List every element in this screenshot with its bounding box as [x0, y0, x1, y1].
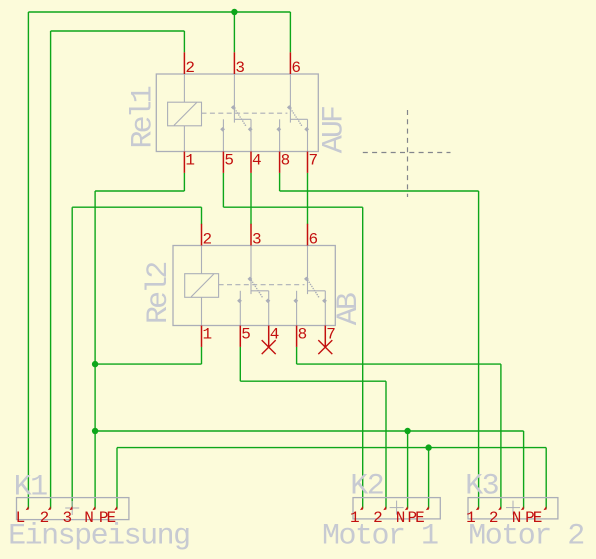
svg-text:1: 1	[203, 326, 213, 344]
wire Rel1 pin 5 horizontal	[223, 206, 362, 208]
connector K1 box	[17, 498, 129, 520]
no-connect X on Rel2 pin 7	[318, 340, 332, 354]
junction N-net at long horizontal	[92, 428, 98, 434]
no-connect X on Rel2 pin 4	[262, 340, 276, 354]
svg-text:K1: K1	[14, 470, 48, 504]
svg-text:7: 7	[309, 152, 319, 170]
Rel1 coil	[168, 102, 202, 126]
K3 origin cross	[506, 507, 520, 509]
junction N-net at Rel2 pin 1 branch	[92, 361, 98, 367]
svg-text:8: 8	[281, 152, 291, 170]
wire Rel2 pin 8 down	[296, 347, 298, 364]
relay Rel1 box	[156, 74, 318, 152]
wire Rel1 pin 1 horizontal	[95, 190, 184, 192]
wire K3.N drop	[523, 431, 525, 509]
svg-text:Rel1: Rel1	[126, 86, 160, 148]
Rel2 pin 3	[250, 224, 252, 246]
wire Rel1 pin 4 to Rel2 pin 3	[250, 173, 252, 224]
wire Rel2 pin 5 down	[239, 347, 241, 381]
svg-text:5: 5	[224, 152, 234, 170]
wire N-net long horizontal	[95, 430, 523, 432]
wire Rel1 pin 5 down	[222, 173, 224, 207]
K3 pin PE	[544, 506, 547, 510]
wire K2.1 vertical	[362, 207, 364, 508]
svg-text:8: 8	[298, 326, 308, 344]
wire Rel1 pin 1 down	[183, 173, 185, 191]
K1 origin cross	[65, 507, 79, 509]
K3 pin 2	[498, 506, 501, 510]
wire K3.2 vertical	[500, 364, 502, 509]
wire K2.PE drop	[428, 448, 430, 509]
wire Rel1 pin 7 to Rel2 pin 6	[307, 173, 309, 224]
Rel1 pin 7	[307, 152, 309, 173]
svg-text:5: 5	[241, 326, 251, 344]
Rel1 changeover contact 6-8-7	[289, 74, 291, 123]
svg-text:4: 4	[252, 152, 262, 170]
wire N-net horizontal to Rel2 pin 1	[95, 363, 201, 365]
Rel2 changeover contact 6-8-7	[307, 246, 309, 295]
dashed cross marker	[363, 152, 451, 154]
K2 pin PE	[426, 506, 429, 510]
Rel1 pin 5	[222, 152, 224, 173]
wire drop to Rel2 pin 2	[201, 207, 203, 224]
svg-text:AUF: AUF	[317, 107, 351, 153]
Rel2 actuation linkage (dashed)	[219, 284, 305, 286]
wire K1.N vertical	[94, 191, 96, 509]
wire K1.PE drop	[116, 448, 118, 509]
wire drop to Rel1 pin 2	[183, 31, 185, 52]
svg-text:Motor 2: Motor 2	[468, 520, 584, 554]
Rel1 actuation linkage (dashed)	[202, 112, 288, 114]
svg-text:Motor 1: Motor 1	[322, 520, 438, 554]
svg-text:3: 3	[252, 231, 262, 249]
K1 pin L	[26, 506, 29, 510]
connector K2 box	[353, 498, 440, 519]
Rel1 pin 8	[279, 152, 281, 173]
junction top L-net at Rel1 pin 3 drop	[231, 9, 237, 15]
wire top horizontal L-net	[28, 11, 290, 13]
Rel1 pin 4	[250, 152, 252, 173]
wire Rel2 pin 1 down	[201, 347, 203, 364]
K2 pin 1	[360, 506, 363, 510]
wire Rel2 pin 5 horizontal	[240, 380, 386, 382]
wire drop to Rel1 pin 6	[289, 12, 291, 52]
K3 pin N	[521, 506, 524, 510]
Rel2 pin 4	[268, 326, 270, 347]
K1 pin 2	[48, 506, 51, 510]
Rel1 pin 1	[183, 152, 185, 173]
junction PE-net at K2.PE drop	[425, 444, 431, 450]
svg-text:6: 6	[309, 231, 319, 249]
svg-text:1: 1	[185, 152, 195, 170]
K1 pin PE	[114, 506, 117, 510]
svg-text:2: 2	[185, 59, 195, 77]
junction N-net at K2.N drop	[404, 428, 410, 434]
svg-text:6: 6	[291, 59, 301, 77]
wire K2.N drop	[407, 431, 409, 509]
wire drop to Rel1 pin 3	[233, 12, 235, 52]
Rel2 pin 2	[201, 224, 203, 246]
wire K1.3 vertical	[71, 207, 73, 508]
wire K3.1 vertical	[478, 191, 480, 509]
wire horizontal to Rel1 pin 2	[51, 30, 185, 32]
Rel2 pin 6	[307, 224, 309, 246]
wire PE horizontal	[117, 447, 546, 449]
K2 pin N	[405, 506, 408, 510]
Rel1 changeover contact 3-5-4	[233, 74, 235, 123]
connector K3 box	[468, 498, 558, 519]
wire Rel1 pin 8 horizontal	[280, 190, 479, 192]
wire K1.2 vertical	[50, 31, 52, 509]
wire Rel1 pin 8 down	[279, 173, 281, 191]
svg-text:Rel2: Rel2	[142, 263, 176, 324]
svg-text:K3: K3	[465, 470, 499, 504]
svg-text:2: 2	[203, 231, 213, 249]
Rel2 pin 7	[324, 326, 326, 347]
wire K1.L up-left vertical	[27, 12, 29, 509]
K3 pin 1	[476, 506, 479, 510]
Rel2 pin 5	[239, 326, 241, 347]
K2 pin 2	[383, 506, 386, 510]
relay Rel2 box	[173, 246, 335, 326]
svg-text:K2: K2	[350, 470, 383, 504]
Rel1 pin 3	[233, 52, 235, 74]
svg-text:AB: AB	[332, 293, 366, 325]
K1 pin N	[92, 506, 95, 510]
wire K3.PE drop	[545, 448, 547, 509]
Rel2 pin 1	[201, 326, 203, 347]
K2 origin cross	[390, 507, 404, 509]
svg-text:Einspeisung: Einspeisung	[8, 520, 190, 554]
Rel1 pin 2	[183, 52, 185, 74]
Rel1 pin 6	[289, 52, 291, 74]
wire Rel2 pin 8 horizontal	[297, 363, 501, 365]
svg-text:3: 3	[235, 59, 245, 77]
K1 pin 3	[70, 506, 73, 510]
Rel2 pin 8	[296, 326, 298, 347]
wire horizontal to Rel2 pin 2	[72, 206, 201, 208]
Rel2 changeover contact 3-5-4	[250, 246, 252, 295]
Rel2 coil	[185, 274, 219, 298]
wire K2.2 vertical	[385, 381, 387, 508]
